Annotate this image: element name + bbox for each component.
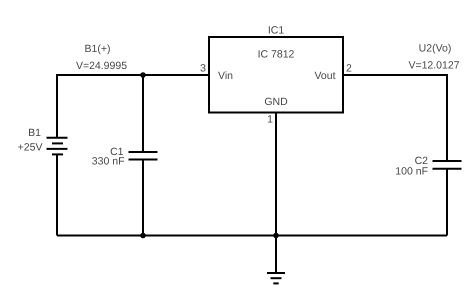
svg-text:100 nF: 100 nF bbox=[395, 166, 428, 178]
svg-text:Vout: Vout bbox=[314, 70, 335, 82]
wire: C1 branch lower bbox=[142, 160, 144, 236]
svg-text:V=24.9995: V=24.9995 bbox=[76, 60, 127, 72]
svg-text:GND: GND bbox=[264, 96, 288, 108]
capacitor C1 bbox=[129, 152, 158, 160]
node: junction bottom rail / ground wire bbox=[273, 233, 279, 239]
svg-text:2: 2 bbox=[346, 63, 352, 75]
svg-text:1: 1 bbox=[267, 114, 273, 126]
svg-text:B1: B1 bbox=[28, 127, 41, 139]
svg-text:3: 3 bbox=[200, 63, 206, 75]
ground bbox=[267, 273, 285, 283]
wire: top rail right (Vout pin to right corner) bbox=[343, 74, 447, 76]
svg-text:IC 7812: IC 7812 bbox=[258, 49, 295, 61]
svg-text:U2(Vo): U2(Vo) bbox=[419, 43, 452, 55]
wire: right vertical (corner down to C2) bbox=[446, 74, 448, 161]
IC IC1 (7812 voltage regulator) box bbox=[209, 37, 343, 113]
svg-text:B1(+): B1(+) bbox=[85, 43, 111, 55]
svg-text:+25V: +25V bbox=[18, 142, 43, 154]
wire: GND pin 1 down to ground bbox=[275, 113, 277, 274]
battery B1 bbox=[47, 138, 68, 155]
wire: top rail left (B1+ to Vin pin) bbox=[57, 74, 209, 76]
node: junction top rail / C1 bbox=[140, 72, 146, 78]
wire: bottom rail bbox=[57, 235, 447, 237]
svg-text:Vin: Vin bbox=[218, 70, 233, 82]
svg-text:330 nF: 330 nF bbox=[92, 156, 125, 168]
wire: C1 branch upper bbox=[142, 75, 144, 152]
svg-text:IC1: IC1 bbox=[268, 25, 285, 37]
wire: left vertical (battery - down to bottom rail) bbox=[56, 155, 58, 236]
wire: C2 branch lower bbox=[446, 169, 448, 236]
svg-text:V=12.0127: V=12.0127 bbox=[408, 60, 459, 72]
capacitor C2 bbox=[433, 161, 462, 169]
node: junction bottom rail / C1 bbox=[140, 233, 146, 239]
wire: left vertical (top rail down to battery +) bbox=[56, 74, 58, 137]
